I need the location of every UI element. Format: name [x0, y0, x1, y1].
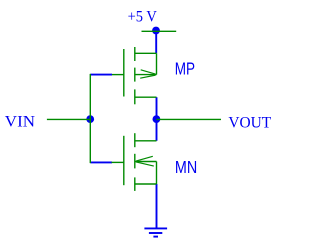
- svg-text:MN: MN: [175, 157, 197, 177]
- svg-text:VIN: VIN: [5, 114, 36, 131]
- svg-text:MP: MP: [175, 58, 195, 78]
- svg-text:+5 V: +5 V: [128, 8, 158, 25]
- svg-text:VOUT: VOUT: [228, 115, 271, 132]
